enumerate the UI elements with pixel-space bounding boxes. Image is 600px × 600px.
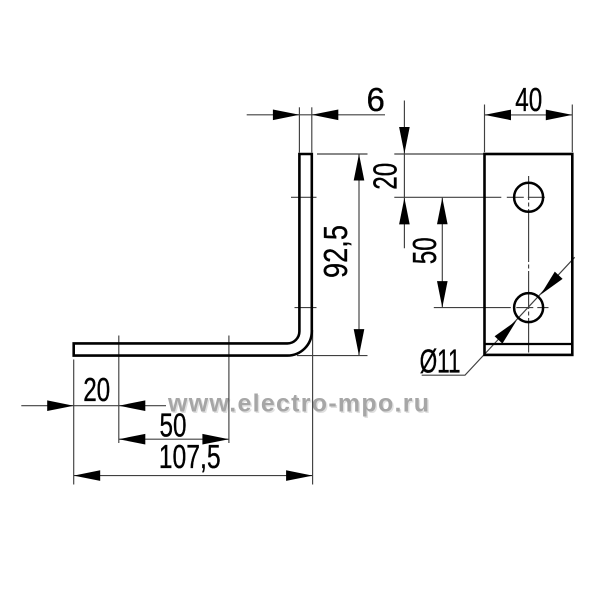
hole 2: [514, 293, 543, 322]
centre line hole 1 horizontal: [394, 196, 548, 198]
svg-text:50: 50: [406, 237, 443, 264]
svg-text:40: 40: [515, 81, 542, 118]
extension lines for height dim 92.5: [317, 153, 368, 155]
extension lines for thickness dim 6: [298, 107, 300, 152]
watermark www.electro-mpo.ru: [167, 390, 430, 419]
dim line 107.5 bottom: [74, 475, 313, 477]
dim line 50 right view: [441, 197, 443, 307]
svg-text:www.electro-mpo.ru: www.electro-mpo.ru: [167, 390, 429, 418]
bend tangent line front view: [485, 343, 573, 345]
hole 1: [514, 183, 543, 212]
dim line 6 (thickness): [247, 114, 385, 116]
centre line hole 2 horizontal: [434, 307, 549, 309]
extension lines for width dim 40: [484, 105, 486, 153]
centre line through holes vertical: [528, 176, 530, 353]
dim line 20 right view: [403, 101, 405, 249]
leader line for dia 11: [422, 257, 575, 375]
dim line 92.5: [358, 154, 360, 356]
extension line hole pos 20 (crosses arm): [118, 336, 120, 444]
dim line 20 bottom: [21, 405, 166, 407]
svg-text:6: 6: [367, 81, 385, 118]
svg-text:20: 20: [367, 163, 404, 190]
extension line arm left end: [73, 360, 75, 485]
extension line arm right end: [312, 330, 314, 485]
hole position tick on leg (20): [291, 196, 317, 198]
L-bracket side profile: [74, 154, 312, 356]
svg-text:20: 20: [83, 371, 110, 408]
svg-text:Ø11: Ø11: [420, 342, 461, 379]
dim line 50 bottom: [119, 438, 229, 440]
dim line 40: [485, 114, 573, 116]
svg-text:107,5: 107,5: [159, 438, 221, 475]
plate front view outline: [485, 154, 573, 355]
extension line hole pos 50 (crosses arm): [228, 336, 230, 444]
hole position tick on leg (50): [295, 307, 317, 309]
extension line of plate top edge for dim 20: [394, 153, 483, 155]
svg-text:92,5: 92,5: [317, 225, 354, 278]
